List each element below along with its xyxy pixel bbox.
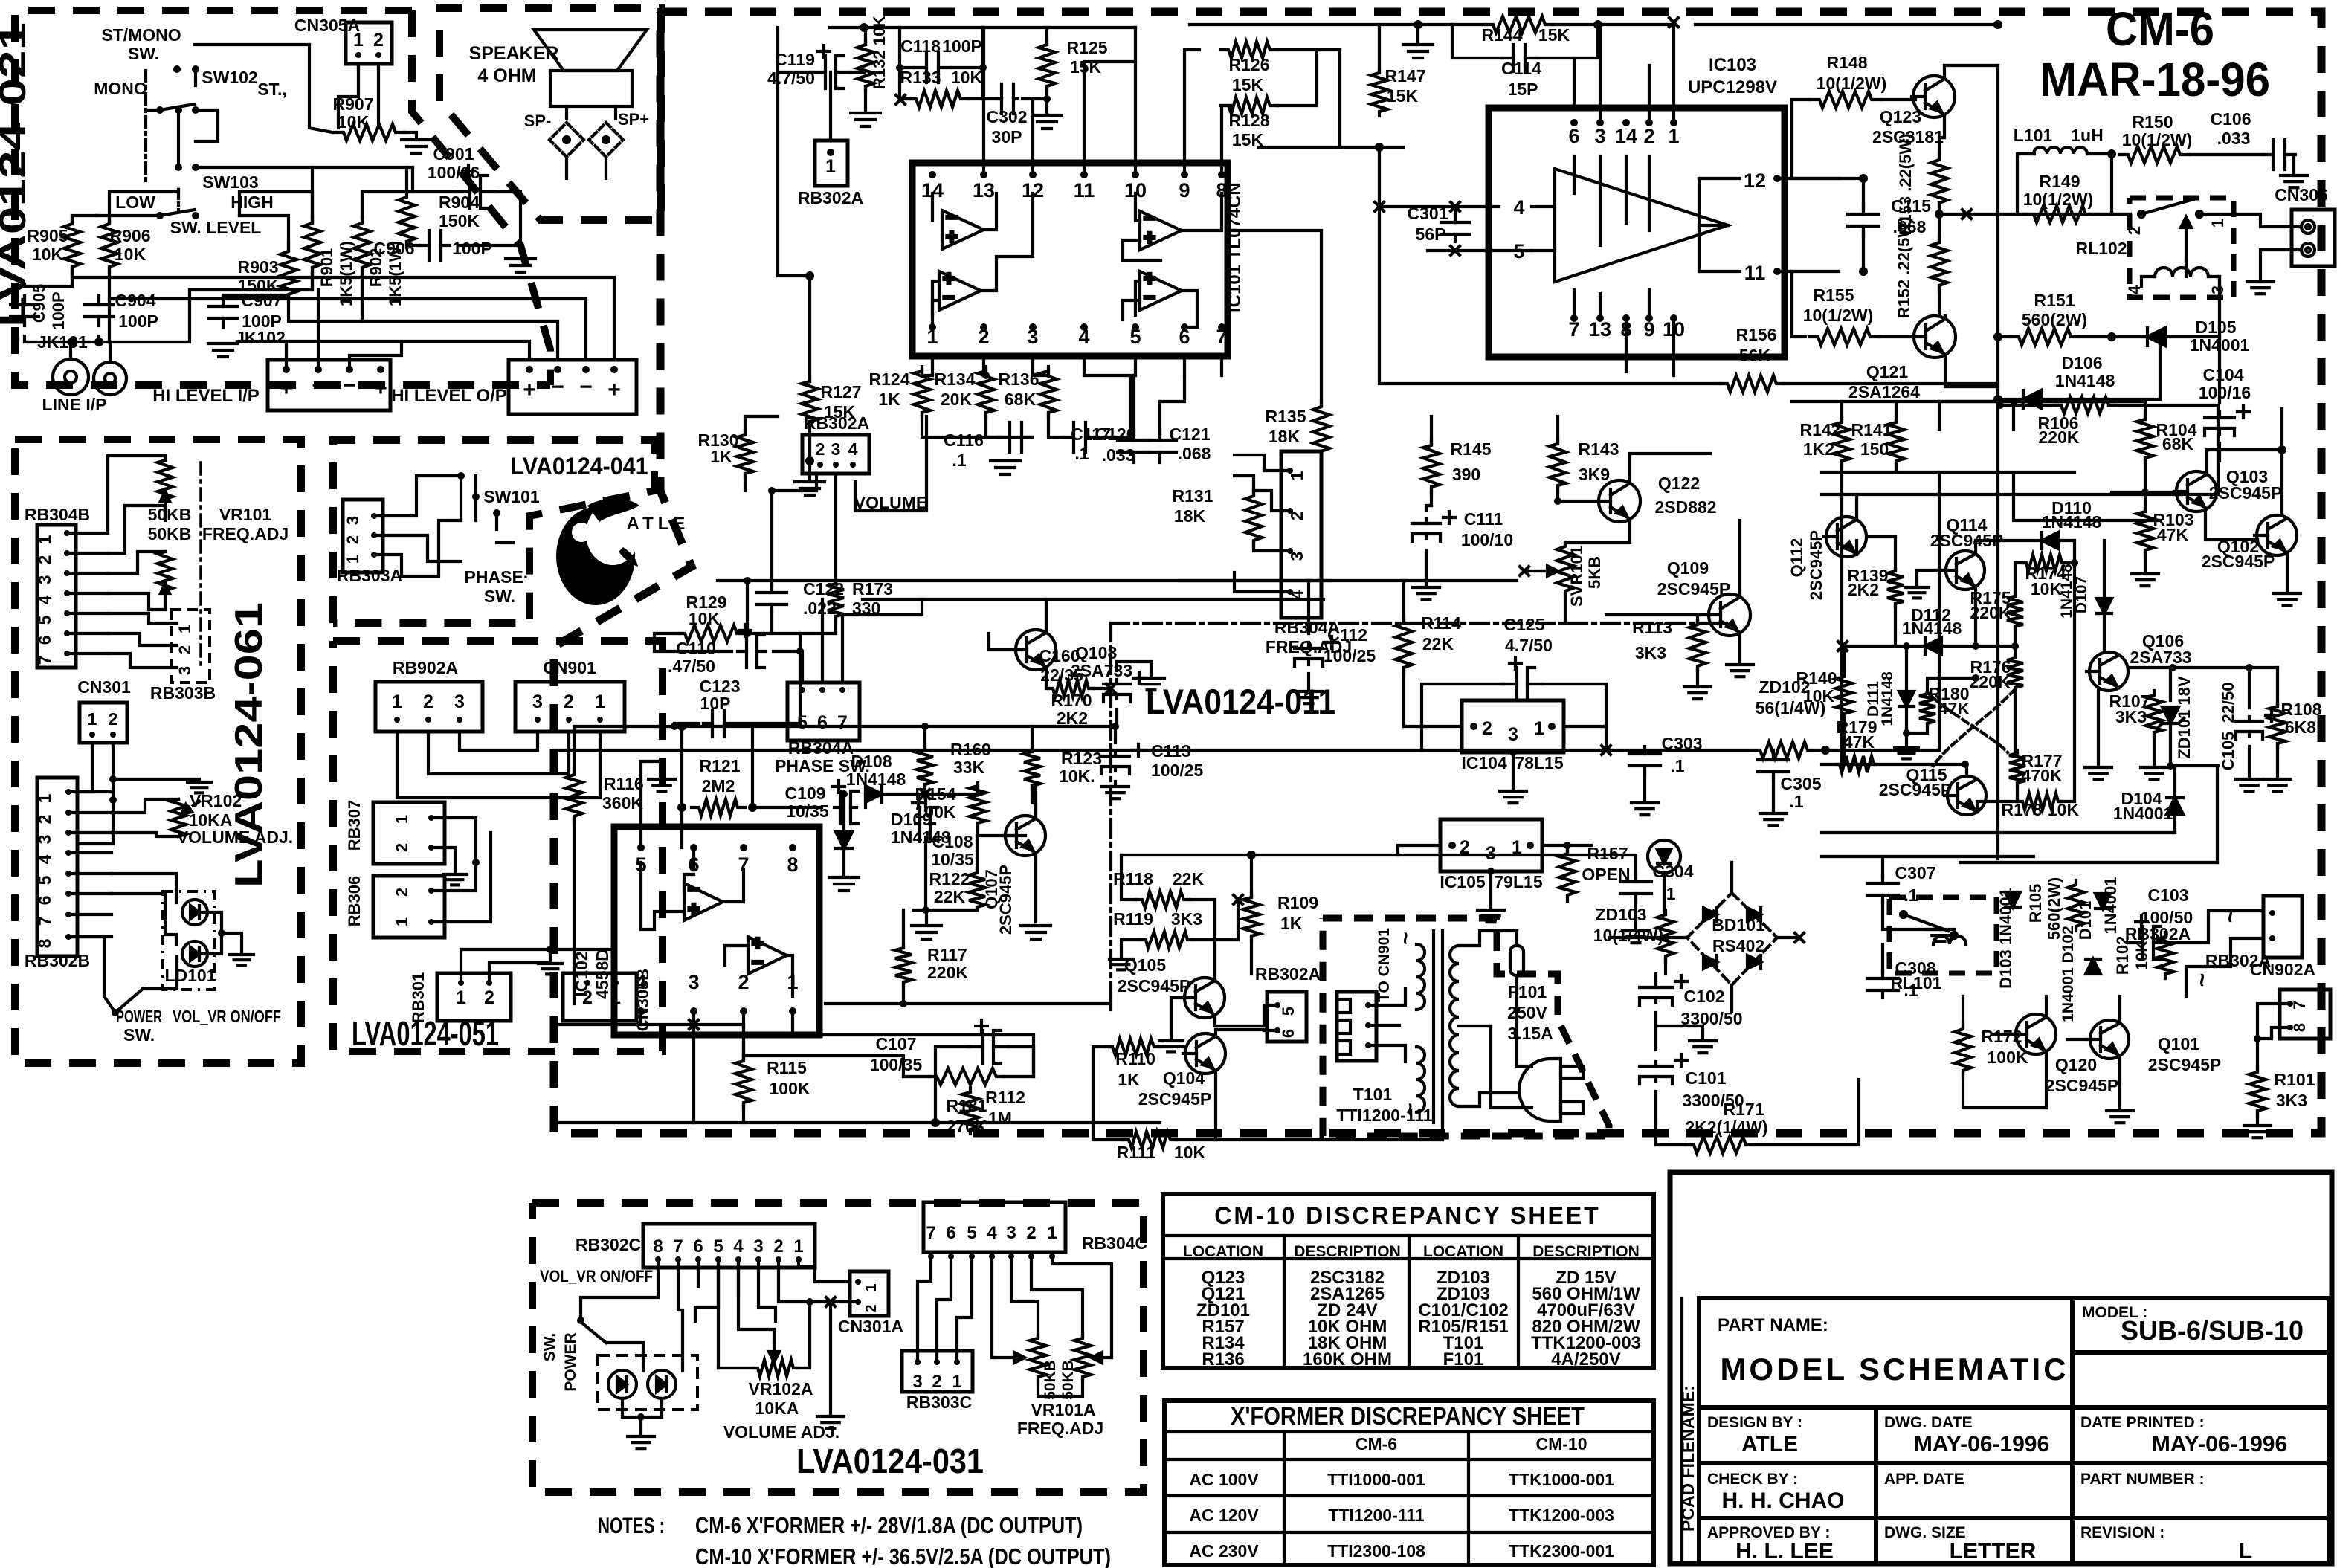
wire R181 r: [793, 1035, 1034, 1077]
resistor R177: [2009, 750, 2025, 786]
ground R103: [2132, 574, 2159, 586]
svg-text:C901: C901: [433, 144, 474, 164]
capacitor C115: [1848, 204, 1879, 236]
junction c110 r: [796, 648, 804, 655]
wire R901 bottom: [311, 274, 314, 290]
wire long bus C: [289, 295, 558, 360]
wire RB302B pin4: [68, 851, 112, 854]
pin RB304A-3: [1287, 548, 1293, 554]
wire d112 row r: [1942, 645, 2015, 648]
junction q105 emi: [1237, 1025, 1239, 1027]
svg-text:1: 1: [175, 625, 194, 633]
svg-text:2SC945P: 2SC945P: [1657, 579, 1730, 599]
wire q104 emi: [1214, 1073, 1217, 1140]
pin JK102-1: [283, 366, 290, 373]
svg-text:10(1/4W): 10(1/4W): [1593, 926, 1664, 945]
pin RB304C-5: [969, 1254, 975, 1259]
pin IC103-11: [1773, 268, 1781, 275]
pin CN306 b: [2301, 243, 2315, 257]
ground C304: [1622, 931, 1649, 943]
wire r114 top: [1402, 581, 1405, 623]
svg-text:LOCATION: LOCATION: [1183, 1243, 1263, 1260]
wire bus 806: [863, 598, 1324, 601]
svg-text:CM-6 X'FORMER +/- 28V/1.8A (DC: CM-6 X'FORMER +/- 28V/1.8A (DC OUTPUT): [695, 1512, 1083, 1538]
pin T101 b: [1365, 1022, 1371, 1028]
svg-text:IC103: IC103: [1709, 55, 1756, 75]
transformer T101 border: [1323, 918, 1609, 1136]
svg-text:R145: R145: [1451, 439, 1492, 459]
svg-text:SUB-6/SUB-10: SUB-6/SUB-10: [2121, 1315, 2304, 1346]
svg-text:HI LEVEL O/P: HI LEVEL O/P: [391, 386, 507, 406]
capacitor C116: [999, 422, 1032, 452]
wire bd101 l: [1666, 936, 1687, 939]
junction X d: [1234, 895, 1242, 904]
wire q112 emi: [1855, 541, 1858, 555]
capacitor C110: [738, 625, 766, 668]
wire RB302C p6: [697, 1259, 700, 1286]
ground at CN301 net: [187, 782, 211, 793]
ground at LD101: [230, 955, 254, 965]
transistor Q102: [2254, 515, 2297, 555]
wire c301 top: [1454, 207, 1457, 213]
wire R903 to C907 node: [223, 295, 289, 299]
wire jk102 p3: [349, 345, 402, 370]
resistor R101: [2249, 1066, 2266, 1117]
resistor R105: [2068, 880, 2084, 931]
ground Q114 base: [1905, 587, 1929, 598]
wire RB302C p2: [779, 1259, 810, 1302]
ground IC104: [1500, 791, 1527, 803]
wire q102 emi: [2286, 553, 2289, 590]
pin IC104-1: [1548, 723, 1556, 730]
wire VR102A right: [797, 1302, 810, 1368]
ground C305: [1760, 813, 1787, 825]
wire rail c103: [2168, 911, 2263, 943]
svg-text:TTI2300-108: TTI2300-108: [1327, 1541, 1425, 1561]
wire Q121 emi: [1945, 355, 1998, 387]
wire R116 bot: [573, 819, 576, 1004]
ground C112: [1295, 691, 1322, 703]
junction row1224: [922, 906, 929, 914]
svg-text:5: 5: [713, 1236, 723, 1256]
pin RB302A-4: [850, 462, 856, 468]
resistor R139: [1887, 568, 1904, 607]
wire c307 b: [1883, 901, 1941, 929]
pin CN901-1: [597, 717, 603, 723]
junction X i: [1602, 746, 1611, 755]
svg-text:18K: 18K: [1174, 506, 1206, 526]
svg-text:1: 1: [35, 793, 54, 803]
capacitor C160: [1103, 672, 1145, 702]
wire c125 l: [1422, 684, 1503, 726]
svg-text:Q105: Q105: [1124, 955, 1166, 975]
pin RB304C-6: [948, 1254, 954, 1259]
svg-text:ST/MONO: ST/MONO: [101, 25, 181, 45]
svg-text:2: 2: [564, 691, 574, 712]
pin tabs T101: [1337, 999, 1350, 1054]
wire R173 bot: [834, 616, 837, 633]
wire pin5 in: [1428, 249, 1532, 252]
wire D105 r: [2218, 277, 2221, 337]
main module LVA0124-011 border: [554, 12, 2321, 1133]
capacitor C906: [420, 230, 450, 260]
svg-text:1K5(1W): 1K5(1W): [337, 241, 355, 306]
svg-text:L101: L101: [2014, 126, 2053, 145]
IC IC101 outline: [912, 163, 1228, 356]
diode BD101 b: [1747, 908, 1761, 921]
svg-text:R123: R123: [1061, 749, 1102, 768]
svg-text:56(1/4W): 56(1/4W): [1756, 698, 1826, 717]
wire C115 top: [1862, 178, 1865, 210]
resistor R114: [1396, 617, 1412, 674]
wire SW102 right branch: [196, 110, 218, 141]
wire coil l: [2141, 277, 2155, 286]
junction r117 b: [900, 1000, 907, 1007]
svg-text:7: 7: [35, 656, 54, 665]
wire VR102A left: [718, 1367, 754, 1369]
svg-text:R907: R907: [333, 94, 374, 114]
pin IC102-6 dot: [690, 844, 697, 851]
arrow VR102A: [769, 1343, 779, 1362]
wire t101 sec to bridge: [1609, 936, 1666, 939]
title part name box: [1699, 1298, 2072, 1407]
svg-text:1K: 1K: [1118, 1070, 1140, 1089]
junction L101 r: [2107, 149, 2116, 158]
wire sw out: [606, 1343, 643, 1371]
diode BD101 c: [1703, 955, 1717, 969]
ground CN301A: [817, 1416, 844, 1428]
pin RB306-1: [428, 919, 434, 925]
svg-text:RS402: RS402: [1712, 936, 1764, 955]
arrow VR101A a: [994, 1352, 1025, 1363]
svg-text:F101: F101: [1443, 1349, 1484, 1369]
wire R133 right: [968, 97, 1002, 100]
diode opto: [1657, 850, 1671, 863]
relay RL101 coil: [1933, 936, 1966, 944]
svg-text:2K2: 2K2: [1057, 709, 1088, 728]
pin CN301A-1: [855, 1279, 861, 1285]
switch power C: [581, 1322, 606, 1343]
svg-text:1N4001 D102: 1N4001 D102: [2060, 926, 2077, 1022]
wire R142 top: [1840, 401, 1843, 420]
svg-text:2K2(1/4W): 2K2(1/4W): [1685, 1117, 1767, 1137]
wire ledC gnd: [639, 1417, 642, 1433]
wire 902-901 b: [428, 732, 569, 774]
svg-text:RL101: RL101: [1890, 973, 1941, 993]
ground C105: [2236, 779, 2263, 791]
svg-text:1: 1: [2208, 219, 2227, 228]
svg-text:.1: .1: [952, 451, 966, 470]
wire RB306 p1: [431, 833, 491, 922]
pin IC101-12: [1029, 171, 1037, 178]
transistor Q122: [1597, 480, 1640, 522]
wire q114 emi: [1974, 587, 1977, 646]
pin RB304B-6: [64, 630, 70, 636]
ground ledC: [628, 1436, 654, 1448]
pin IC101-11: [1080, 171, 1088, 178]
wire R127 gnd: [808, 461, 811, 479]
op-amp IC101b: [939, 267, 981, 310]
svg-text:2M2: 2M2: [702, 776, 735, 796]
wire r111 r: [1176, 1108, 1443, 1140]
wire L101 r: [2087, 154, 2112, 214]
junction R127 top: [805, 271, 814, 280]
capacitor C112: [1295, 636, 1338, 666]
wire R151 l: [1998, 335, 2010, 338]
svg-text:RB302A: RB302A: [1255, 964, 1321, 984]
resistor R154: [970, 783, 986, 826]
svg-text:IC105: IC105: [1440, 872, 1486, 891]
dashdot VR101 frame: [199, 462, 202, 669]
svg-text:3K9: 3K9: [1579, 465, 1610, 484]
table CM-10 data col1: [1196, 1268, 1250, 1369]
logo ATLE: [556, 498, 639, 605]
svg-text:2SC945P: 2SC945P: [1807, 530, 1825, 600]
wire R148 l: [1792, 100, 1839, 178]
wire RB302C p3: [758, 1259, 776, 1321]
wire c108 b: [924, 837, 927, 910]
svg-text:~: ~: [2188, 973, 2215, 987]
svg-text:SP-: SP-: [524, 112, 552, 130]
svg-text:10K: 10K: [32, 245, 64, 264]
svg-text:.1: .1: [1074, 444, 1089, 463]
svg-text:50KB: 50KB: [148, 524, 192, 543]
xf line h1: [1164, 1430, 1654, 1433]
wire R902 bottom: [361, 274, 364, 321]
svg-text:C110: C110: [676, 639, 716, 658]
svg-text:R155: R155: [1814, 285, 1854, 305]
wire c116 l: [922, 413, 999, 437]
wire CN305A pin1 down: [338, 64, 358, 128]
wire q120 emi: [2045, 1053, 2048, 1108]
transistor Q108: [1013, 630, 1056, 670]
svg-text:3: 3: [912, 1372, 922, 1392]
wire rb304a p4: [1234, 572, 1290, 592]
title date printed box: [2072, 1407, 2329, 1463]
svg-text:2SA733: 2SA733: [2130, 648, 2191, 667]
resistor R156: [1720, 375, 1784, 392]
wire r122 t: [976, 836, 979, 873]
connector CN305B: [563, 973, 636, 1021]
wire main vertical 2687: [1996, 65, 1999, 859]
svg-text:7: 7: [837, 712, 848, 733]
junction X b: [1375, 202, 1384, 211]
transistor Q115: [1944, 776, 1986, 815]
wire R905 bottom: [25, 268, 72, 286]
svg-text:5KB: 5KB: [1585, 556, 1604, 589]
wire r140 bot: [1843, 716, 1846, 764]
svg-text:2SC945P: 2SC945P: [2148, 1055, 2221, 1074]
resistor R181: [929, 1068, 1004, 1085]
svg-text:MAR-18-96: MAR-18-96: [2040, 53, 2270, 106]
svg-text:CM-10 X'FORMER +/- 36.5V/2.5A: CM-10 X'FORMER +/- 36.5V/2.5A (DC OUTPUT…: [695, 1543, 1111, 1568]
wire node288: [1939, 213, 2130, 216]
wire R106 l: [2000, 404, 2061, 407]
junction X f: [1451, 202, 1460, 211]
wire R903 top: [239, 216, 289, 251]
wire R131 top: [1234, 476, 1254, 495]
wire RB307 p2: [431, 848, 455, 871]
junction CN301a: [109, 775, 117, 783]
wire d110 row: [1976, 539, 2041, 542]
wire RB304B pin6: [67, 632, 108, 635]
svg-text:RB307: RB307: [345, 800, 364, 851]
wire RB302C p8: [581, 1259, 658, 1317]
wire VR101 b bot: [108, 593, 165, 610]
svg-text:Q108: Q108: [1075, 643, 1117, 662]
resistor R128: [1221, 97, 1277, 114]
svg-text:C307: C307: [1895, 863, 1936, 883]
table CM-10 data col3: [1418, 1268, 1508, 1369]
wire bus 977: [576, 725, 1111, 728]
wire RB303B 2: [108, 633, 177, 645]
pin RB304A-2: [1287, 508, 1293, 514]
wire ic102 p1 net: [791, 1011, 794, 1035]
svg-text:DESIGN BY :: DESIGN BY :: [1707, 1414, 1802, 1431]
pin RB304C-3: [1008, 1254, 1014, 1259]
svg-text:1: 1: [393, 815, 411, 824]
pin RB302C-7: [675, 1256, 681, 1262]
svg-text:R150: R150: [2133, 112, 2173, 132]
svg-text:3: 3: [532, 691, 543, 712]
svg-text:REVISION :: REVISION :: [2080, 1524, 2164, 1541]
wire CN301 gnd link: [113, 778, 199, 781]
wire r177 bot: [2016, 784, 2019, 801]
svg-text:CM-6: CM-6: [2106, 2, 2214, 56]
wire d111 gnd: [1905, 733, 1908, 745]
junction c107: [931, 1118, 940, 1127]
svg-text:3: 3: [2208, 285, 2227, 294]
svg-text:RB302A: RB302A: [798, 188, 863, 207]
svg-text:T101: T101: [1353, 1085, 1393, 1104]
wire IC101 pin12 up: [1031, 99, 1034, 175]
svg-text:AC 120V: AC 120V: [1189, 1506, 1259, 1525]
zener ZD101: [2157, 707, 2184, 729]
IC IC105: [1440, 819, 1542, 871]
wire RB304B pin4: [67, 592, 108, 595]
wire C107 l: [935, 1047, 970, 1123]
resistor R132: [857, 40, 874, 91]
pin RB304B-4: [64, 590, 70, 596]
wire coil r: [2208, 277, 2220, 286]
resistor R122: [969, 870, 985, 910]
svg-text:30P: 30P: [992, 127, 1022, 146]
wire c303 b: [1643, 772, 1646, 800]
wire IC101 pin6 stub: [1183, 356, 1186, 375]
svg-text:1N4148: 1N4148: [1879, 671, 1896, 726]
arrow VR101a: [161, 491, 170, 520]
relay RL101 border: [1889, 897, 1996, 973]
capacitor C125: [1502, 657, 1542, 700]
resistor R110: [1106, 1039, 1160, 1055]
wire op4 in: [1135, 281, 1140, 315]
wire MONO to SW102: [146, 109, 160, 112]
svg-text:R133: R133: [900, 68, 941, 87]
wire r101 bot: [2256, 1112, 2259, 1123]
svg-text:DWG. DATE: DWG. DATE: [1884, 1414, 1973, 1431]
pin IC105-2: [1448, 842, 1456, 849]
svg-text:10K: 10K: [115, 245, 146, 264]
svg-text:MAY-06-1996: MAY-06-1996: [1914, 1432, 2049, 1456]
junction r154 t: [977, 793, 979, 795]
junction q103 col: [2278, 445, 2286, 454]
wire R142 bot: [1938, 474, 1941, 750]
capacitor C119: [810, 45, 851, 88]
svg-text:PCAD FILENAME:: PCAD FILENAME:: [1678, 1385, 1698, 1532]
svg-text:R136: R136: [1202, 1349, 1244, 1369]
led LD101 b: [182, 941, 207, 967]
wire op b out: [787, 955, 793, 996]
wire zd102 r: [1817, 749, 1939, 752]
wire C901 right: [495, 192, 520, 253]
wire VR101A p3: [1011, 1256, 1038, 1337]
wire q120 base: [1993, 1033, 2016, 1036]
svg-text:Q120: Q120: [2055, 1055, 2097, 1074]
wire rb302a65 p5: [1264, 1005, 1277, 1026]
svg-text:1N4148: 1N4148: [2058, 564, 2075, 619]
capacitor C301: [1441, 215, 1469, 242]
wire R127 bot: [808, 422, 811, 461]
wire R135 bot: [1320, 452, 1323, 491]
wire q115 emi: [1977, 801, 2018, 812]
wire R127 top: [778, 72, 810, 381]
svg-text:6: 6: [693, 1236, 703, 1256]
xf col a: [1283, 1432, 1286, 1565]
pin IC101-4: [1080, 323, 1088, 331]
svg-text:JK102: JK102: [235, 328, 286, 347]
svg-text:3: 3: [344, 516, 362, 525]
svg-text:D107: D107: [2073, 576, 2090, 613]
ground C111: [1413, 587, 1440, 599]
svg-text:ZD102: ZD102: [1759, 677, 1810, 697]
pin T101 c: [1365, 1042, 1371, 1048]
svg-text:10K.: 10K.: [1059, 767, 1095, 786]
svg-text:R117: R117: [927, 945, 967, 964]
wire VR102A p5: [717, 1259, 720, 1368]
svg-text:160K OHM: 160K OHM: [1303, 1349, 1392, 1369]
wire VR101 top loop: [108, 456, 165, 533]
svg-text:.033: .033: [2217, 129, 2251, 148]
svg-text:TTK2300-001: TTK2300-001: [1509, 1541, 1614, 1561]
resistor R104: [2137, 415, 2153, 462]
wire q101 emi: [2118, 1059, 2121, 1108]
capacitor C123: [703, 710, 733, 737]
svg-text:1: 1: [35, 535, 54, 544]
svg-text:100P: 100P: [942, 36, 982, 56]
resistor R119: [1140, 932, 1193, 948]
wire rail540: [1792, 400, 2143, 403]
wire rb304a p1: [1234, 455, 1290, 471]
wire Q108 base: [989, 633, 1016, 650]
wire C106 gnd: [2292, 155, 2295, 172]
wire d112 row l: [1843, 645, 1924, 648]
svg-text:F101: F101: [1508, 982, 1547, 1001]
svg-text:LOCATION: LOCATION: [1423, 1243, 1503, 1260]
wire R104 bot: [2144, 458, 2147, 512]
connector SP- diamond: [549, 123, 584, 157]
resistor R152: [1931, 236, 1947, 291]
wire R139 top: [1894, 537, 1897, 571]
svg-text:C302: C302: [987, 107, 1028, 126]
pin RB303C-1: [954, 1359, 960, 1365]
wire 902-901 c: [460, 732, 538, 750]
pin RB306-2: [428, 888, 434, 894]
svg-text:18K: 18K: [1269, 427, 1300, 446]
svg-text:C116: C116: [944, 430, 984, 450]
wire C122 bot: [770, 612, 773, 633]
wire IC101 pin11 up: [1084, 62, 1135, 175]
svg-text:VOL_VR ON/OFF: VOL_VR ON/OFF: [173, 1007, 281, 1026]
